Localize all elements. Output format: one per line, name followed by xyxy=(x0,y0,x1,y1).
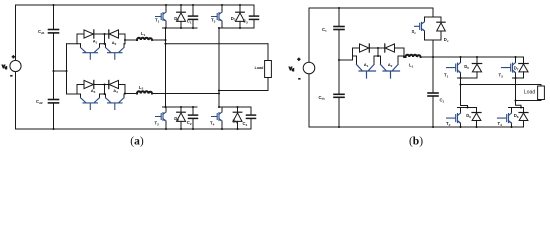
svg-text:C3: C3 xyxy=(243,18,248,24)
IGBT A3 xyxy=(81,94,100,109)
node: cell T4 dots xyxy=(218,106,239,130)
diode of A3 (points right) xyxy=(84,80,94,88)
svg-text:Cc: Cc xyxy=(322,27,327,33)
svg-text:D7: D7 xyxy=(514,66,519,72)
node: cell T3 dots xyxy=(218,4,241,29)
wire: left rail (a) xyxy=(15,5,17,129)
wire: L1 to left leg xyxy=(152,39,165,41)
capacitor C3 xyxy=(250,5,259,28)
node: tie junctions xyxy=(52,4,67,130)
wire: pair inner horizontals / lead-in xyxy=(67,93,126,95)
wire: right leg (a) xyxy=(218,28,220,107)
svg-text:-: - xyxy=(11,73,13,79)
diode Dc xyxy=(437,17,446,40)
wire: dc-link capacitor string (a) xyxy=(53,5,55,129)
diode D2 xyxy=(177,107,186,129)
node: cell T3 dots (b) xyxy=(514,56,516,79)
node: pair junction dots xyxy=(377,47,405,58)
wire: load bottom rail (a) xyxy=(219,90,268,92)
IGBT T2 (b) xyxy=(447,108,461,128)
IGBT T3 xyxy=(212,5,223,28)
wire: pair top rail xyxy=(77,84,125,86)
IGBT A2 xyxy=(106,44,125,59)
wire: pair left vertical xyxy=(352,48,354,60)
IGBT T4 (b) xyxy=(498,108,512,128)
wire: clamp top rail xyxy=(425,16,442,18)
node: string dots (b) xyxy=(338,7,340,128)
svg-text:(a): (a) xyxy=(130,136,144,148)
svg-text:Cd1: Cd1 xyxy=(38,29,45,35)
svg-text:Dc: Dc xyxy=(444,37,449,43)
svg-text:Load: Load xyxy=(524,90,536,96)
wire: C1 string (b) xyxy=(432,57,434,127)
wire: L2 to right leg xyxy=(152,93,219,95)
node: cell T2 dots (b) xyxy=(459,106,477,128)
node: leg dots (b) xyxy=(459,83,516,101)
wire: pair right vertical xyxy=(124,34,126,44)
wire: aux bottom branch to L2 xyxy=(125,93,137,95)
node: pair junction dots xyxy=(103,33,126,45)
svg-text:Cdc: Cdc xyxy=(319,95,326,101)
IGBT T4 xyxy=(212,107,223,129)
diode D6 xyxy=(472,108,481,128)
IGBT T3 (b) xyxy=(502,57,516,78)
voltage source Vd (b) xyxy=(298,57,315,82)
svg-text:C1: C1 xyxy=(440,97,445,103)
diode of A2 (points left) xyxy=(109,30,119,38)
wire: pair middle vertical xyxy=(377,48,379,56)
svg-text:A2: A2 xyxy=(112,40,117,46)
IGBT A2 (b) xyxy=(381,56,400,78)
svg-text:Sc: Sc xyxy=(412,29,417,35)
svg-text:+: + xyxy=(12,54,15,59)
diode D5 xyxy=(472,57,481,78)
inductor L2 (a) xyxy=(137,91,152,93)
diode of A4 (points left) xyxy=(109,80,119,88)
svg-text:D5: D5 xyxy=(464,64,469,70)
node: cell T1 dots xyxy=(164,4,194,29)
wire: load top rail (a) xyxy=(166,43,269,45)
svg-text:T4: T4 xyxy=(210,121,215,127)
wire: pair left vertical xyxy=(76,34,78,44)
svg-text:T1: T1 xyxy=(444,73,449,79)
wire: clamp entry xyxy=(432,8,434,17)
IGBT T1 xyxy=(156,5,167,28)
wire: left leg (a) xyxy=(165,28,167,107)
wire: cell T4 top rail xyxy=(219,106,251,108)
svg-text:L1: L1 xyxy=(409,63,414,69)
svg-text:T3: T3 xyxy=(499,73,504,79)
wire: main line L1 to bridge (b) xyxy=(421,56,524,58)
wire: pair top rail xyxy=(77,33,125,35)
svg-text:A4: A4 xyxy=(113,88,118,94)
svg-text:D8: D8 xyxy=(514,113,519,119)
wire: bottom bus (b) xyxy=(309,126,524,128)
wire: right bridge leg (b) xyxy=(516,78,522,108)
svg-text:D6: D6 xyxy=(466,113,471,119)
capacitor Cd2 xyxy=(49,100,59,103)
capacitor Cdc xyxy=(334,94,344,97)
wire: cell T1 bottom rail (b) xyxy=(458,77,478,79)
IGBT T1 (b) xyxy=(447,57,461,78)
wire: pair left vertical xyxy=(76,85,78,95)
wire: midpoint tie (a) xyxy=(54,70,67,72)
IGBT Sc xyxy=(415,17,425,40)
IGBT A1 xyxy=(81,44,100,59)
svg-text:C2: C2 xyxy=(187,120,192,126)
voltage source Vd (a) xyxy=(10,54,21,79)
capacitor C1 xyxy=(189,5,198,28)
svg-text:A2: A2 xyxy=(388,62,393,68)
wire: capacitor string (b) xyxy=(338,8,340,127)
svg-text:L1: L1 xyxy=(141,31,146,37)
wire: pair inner horizontals / lead-in xyxy=(67,43,126,45)
svg-text:T2: T2 xyxy=(155,121,160,127)
node: pair junction dots xyxy=(103,83,126,95)
diode of A1 (points right) xyxy=(84,30,94,38)
diode D7 xyxy=(519,57,528,78)
svg-text:C4: C4 xyxy=(243,121,248,127)
svg-text:A1: A1 xyxy=(93,39,98,45)
capacitor C1 (b) xyxy=(428,93,438,96)
capacitor C4 xyxy=(247,107,256,129)
svg-text:T2: T2 xyxy=(446,121,451,127)
svg-text:T1: T1 xyxy=(155,18,160,24)
inductor L1 (a) xyxy=(137,38,152,40)
node: cell T1 dots (b) xyxy=(459,56,478,79)
diode D4 xyxy=(233,107,242,129)
wire: cell T3 bottom rail (b) xyxy=(513,77,524,79)
load resistor (a) xyxy=(265,44,272,91)
svg-text:A3: A3 xyxy=(91,88,96,94)
wire: bottom bus (a) xyxy=(16,128,252,130)
svg-text:-: - xyxy=(299,76,301,82)
wire: left leg jog (b) xyxy=(461,106,468,108)
inductor L1 (b) xyxy=(406,55,421,57)
diode D8 xyxy=(519,108,528,128)
diode of A2 (points left) xyxy=(385,44,395,52)
wire: pair right vertical xyxy=(124,85,126,95)
IGBT T2 xyxy=(156,107,167,129)
capacitor Cc xyxy=(334,27,344,30)
svg-text:T3: T3 xyxy=(211,18,216,24)
svg-text:Vd: Vd xyxy=(289,66,294,72)
diode of A1 (points right) xyxy=(360,44,370,52)
svg-text:Vd: Vd xyxy=(2,64,7,70)
wire: top bus (a) xyxy=(16,4,255,6)
capacitor C2 xyxy=(189,107,198,129)
wire: load top rail (b) xyxy=(461,84,542,86)
wire: left rail (b) xyxy=(308,8,310,127)
wire: pair exit to L1 (b) xyxy=(404,56,406,58)
diode D3 xyxy=(236,5,245,28)
capacitor Cd1 xyxy=(49,30,59,33)
svg-text:T4: T4 xyxy=(498,121,503,127)
wire: pair middle vertical xyxy=(104,34,106,44)
wire: clamp exit xyxy=(432,40,434,57)
svg-text:A1: A1 xyxy=(364,62,369,68)
wire: cell T1 bottom rail xyxy=(163,27,198,29)
diode D1 xyxy=(177,5,186,28)
wire: aux top branch to L1 xyxy=(125,39,137,41)
svg-text:Cd2: Cd2 xyxy=(36,99,43,105)
wire: load bottom rail (b) xyxy=(516,100,542,102)
svg-text:(b): (b) xyxy=(409,136,423,148)
wire: cell T2 top rail xyxy=(163,106,198,108)
wire: pair inner horizontals / lead-in xyxy=(339,56,404,60)
svg-text:+: + xyxy=(298,57,301,62)
load resistor (b) xyxy=(538,85,545,101)
wire: cell T3 bottom rail xyxy=(219,27,254,29)
wire: aux common vertical (a) xyxy=(66,44,68,94)
wire: left bridge leg (b) xyxy=(460,78,462,106)
wire: clamp bottom rail xyxy=(425,39,442,41)
IGBT A4 xyxy=(106,94,125,109)
node: leg junction dots xyxy=(164,39,220,95)
wire: pair right vertical xyxy=(403,48,405,57)
wire: pair top rail xyxy=(353,47,405,49)
IGBT A1 (b) xyxy=(357,56,376,78)
node: main line dots (b) xyxy=(432,56,434,128)
node: cell T2 dots xyxy=(164,106,194,130)
svg-text:Load: Load xyxy=(255,66,265,70)
node: cell T4 dots (b) xyxy=(510,106,522,128)
wire: cell T4 top rail (b) xyxy=(509,107,524,109)
svg-text:D3: D3 xyxy=(231,16,236,22)
wire: cell T2 top rail (b) xyxy=(458,107,477,109)
svg-text:L2: L2 xyxy=(139,85,144,91)
wire: top bus (b) xyxy=(309,7,433,9)
wire: pair middle vertical xyxy=(104,85,106,95)
